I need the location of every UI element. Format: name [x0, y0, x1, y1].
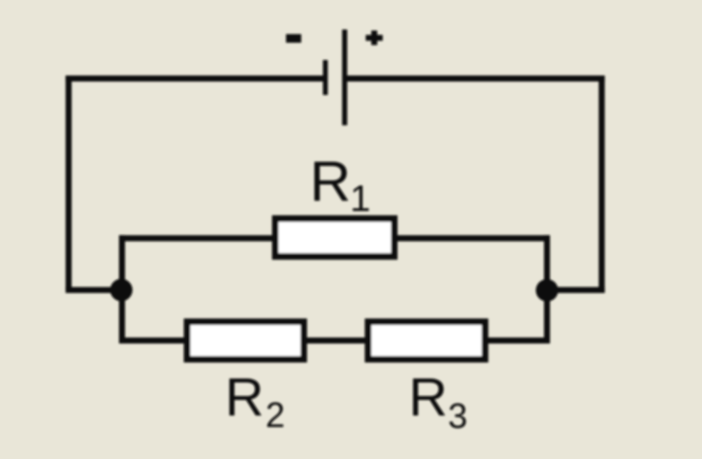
- wire node A down to bottom branch: [119, 290, 125, 344]
- wire bottom branch right horizontal from R3: [486, 338, 550, 344]
- wire node B up to middle branch: [544, 235, 550, 290]
- node B junction dot: [536, 279, 558, 301]
- wire left outer vertical: [66, 76, 72, 291]
- wire from battery positive terminal to top-right corner: [347, 76, 605, 82]
- label R1: [310, 150, 371, 219]
- wire bottom branch left horizontal into R2: [119, 338, 186, 344]
- wire between R2 and R3: [305, 338, 367, 344]
- node A junction dot: [110, 279, 132, 301]
- svg-text:R: R: [310, 150, 351, 214]
- battery polarity label minus: [286, 34, 301, 43]
- resistor R1 body: [275, 219, 394, 257]
- svg-text:1: 1: [350, 178, 371, 219]
- battery BT1 positive plate (long): [342, 30, 347, 126]
- svg-text:R: R: [225, 368, 264, 428]
- wire left stub into node A: [66, 287, 116, 293]
- wire middle branch right horizontal from R1: [396, 235, 550, 241]
- resistor R2 body: [187, 322, 304, 360]
- label R2: [225, 368, 285, 435]
- label R3: [409, 368, 468, 436]
- svg-text:R: R: [409, 368, 448, 428]
- wire right outer vertical: [599, 76, 605, 294]
- wire right stub from node B: [544, 287, 605, 293]
- wire middle branch left horizontal into R1: [119, 235, 274, 241]
- battery BT1 negative plate (short): [323, 60, 328, 95]
- resistor R3 body: [368, 322, 485, 360]
- wire node A up to middle branch: [119, 235, 125, 290]
- battery polarity label plus: [366, 31, 383, 46]
- svg-text:3: 3: [448, 397, 467, 436]
- wire from battery negative terminal to top-left corner: [66, 76, 324, 82]
- wire node B down to bottom branch: [544, 290, 550, 344]
- svg-text:2: 2: [266, 396, 285, 435]
